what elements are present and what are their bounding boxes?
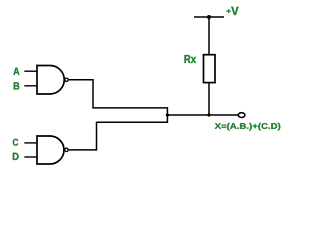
nand gate U1 bubble <box>65 78 68 81</box>
label X=(A.B.)+(C.D) <box>215 123 281 131</box>
resistor Rx body <box>204 55 216 83</box>
label A <box>13 68 19 75</box>
label C <box>13 139 18 146</box>
nand gate U2 body <box>37 136 64 164</box>
wire resistor bottom to node <box>208 83 210 115</box>
nand gate U2 bubble <box>65 148 68 151</box>
wire resistor top to +V <box>208 17 210 55</box>
output wire <box>167 114 238 116</box>
output terminal oval <box>238 113 245 118</box>
input stub B <box>24 85 37 87</box>
input stub A <box>24 70 37 72</box>
wire U2 output to node <box>69 115 168 150</box>
input stub D <box>24 156 37 158</box>
label D <box>13 153 19 160</box>
label Rx <box>185 55 197 63</box>
input stub C <box>24 142 37 144</box>
label +V <box>226 7 238 15</box>
junction dot +V <box>207 15 211 19</box>
junction dot node left <box>166 113 169 116</box>
label B <box>14 82 20 89</box>
nand gate U1 body <box>37 66 64 95</box>
+V supply bar <box>194 16 224 18</box>
wire U1 output to node <box>69 80 168 115</box>
junction dot resistor node <box>207 113 210 116</box>
